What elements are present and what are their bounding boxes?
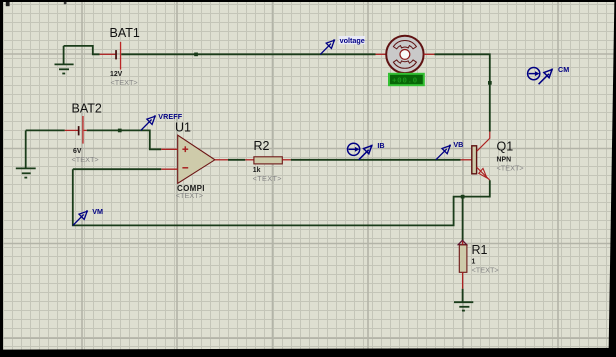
svg-text:+00.0: +00.0 [392, 78, 418, 86]
IB current probe [348, 143, 373, 160]
wire junction down to R1 [462, 197, 464, 242]
top pole arc [393, 41, 416, 49]
svg-text:1k: 1k [253, 167, 261, 174]
svg-text:BAT2: BAT2 [72, 102, 102, 116]
transistor Q1 [461, 132, 490, 181]
svg-text:CM: CM [558, 65, 569, 74]
bottom pole arc [393, 60, 416, 68]
svg-text:6V: 6V [73, 148, 82, 155]
base bar [472, 146, 477, 174]
svg-text:U1: U1 [175, 121, 191, 135]
CM current probe [528, 68, 553, 85]
battery BAT1 [100, 42, 122, 70]
plus input mark [182, 146, 188, 168]
wire BAT1 plus to motor [121, 53, 375, 55]
svg-text:R1: R1 [472, 243, 488, 257]
svg-text:<TEXT>: <TEXT> [176, 191, 203, 200]
svg-text:R2: R2 [254, 139, 270, 153]
wire R2 to base [291, 159, 461, 161]
ground (top-left, BAT1 negative) [55, 46, 74, 74]
svg-text:IB: IB [377, 141, 384, 150]
wire R1 to ground [462, 289, 464, 302]
svg-text:<TEXT>: <TEXT> [472, 265, 499, 274]
op-amp U1 [178, 135, 215, 183]
screenshot artifact marks [6, 2, 10, 6]
VM probe [73, 210, 88, 225]
junction dot B [488, 81, 492, 85]
svg-text:VB: VB [453, 140, 463, 149]
svg-text:Q1: Q1 [497, 140, 514, 154]
svg-text:BAT1: BAT1 [110, 26, 140, 40]
svg-text:<TEXT>: <TEXT> [253, 174, 282, 183]
ground (left, BAT2 negative) [16, 131, 36, 178]
motor [386, 36, 423, 73]
voltage probe [320, 39, 335, 54]
emitter lead with arrow [477, 167, 490, 180]
svg-text:VM: VM [92, 207, 103, 216]
motor rpm display [389, 74, 424, 86]
VREFF probe [141, 115, 156, 130]
battery BAT2 [65, 116, 87, 144]
collector lead [477, 132, 490, 152]
svg-text:voltage: voltage [340, 36, 365, 45]
op-amp input leads [161, 149, 228, 169]
page border frame [0, 0, 616, 2]
label voltage [339, 36, 365, 44]
wire emitter to R1 and VM net [73, 169, 490, 225]
resistor R2 [245, 157, 290, 164]
base lead [461, 159, 472, 161]
current direction arrow at R1 [458, 240, 467, 244]
svg-text:<TEXT>: <TEXT> [497, 163, 524, 172]
motor lead right [424, 53, 435, 55]
wire motor to collector [435, 54, 490, 131]
svg-text:<TEXT>: <TEXT> [72, 155, 99, 164]
resistor R1 [459, 241, 467, 288]
wire output to R2 [228, 159, 245, 161]
op-amp output lead [215, 159, 228, 161]
minus input mark [182, 167, 188, 169]
wire BAT1 minus to ground [64, 46, 100, 54]
junction dot D [461, 195, 465, 199]
junction dot C [118, 129, 122, 133]
svg-text:12V: 12V [110, 71, 123, 78]
motor lead left [376, 53, 387, 55]
ground (bottom, R1) [454, 302, 473, 310]
junction dot A [194, 53, 198, 57]
wire op-amp minus input [73, 168, 161, 170]
wire BAT2 plus to op-amp plus input [87, 130, 161, 149]
svg-text:1: 1 [472, 258, 476, 265]
VB probe [436, 145, 451, 160]
wire ground to BAT2 [26, 129, 65, 131]
svg-text:NPN: NPN [497, 156, 512, 163]
svg-text:<TEXT>: <TEXT> [111, 78, 138, 87]
